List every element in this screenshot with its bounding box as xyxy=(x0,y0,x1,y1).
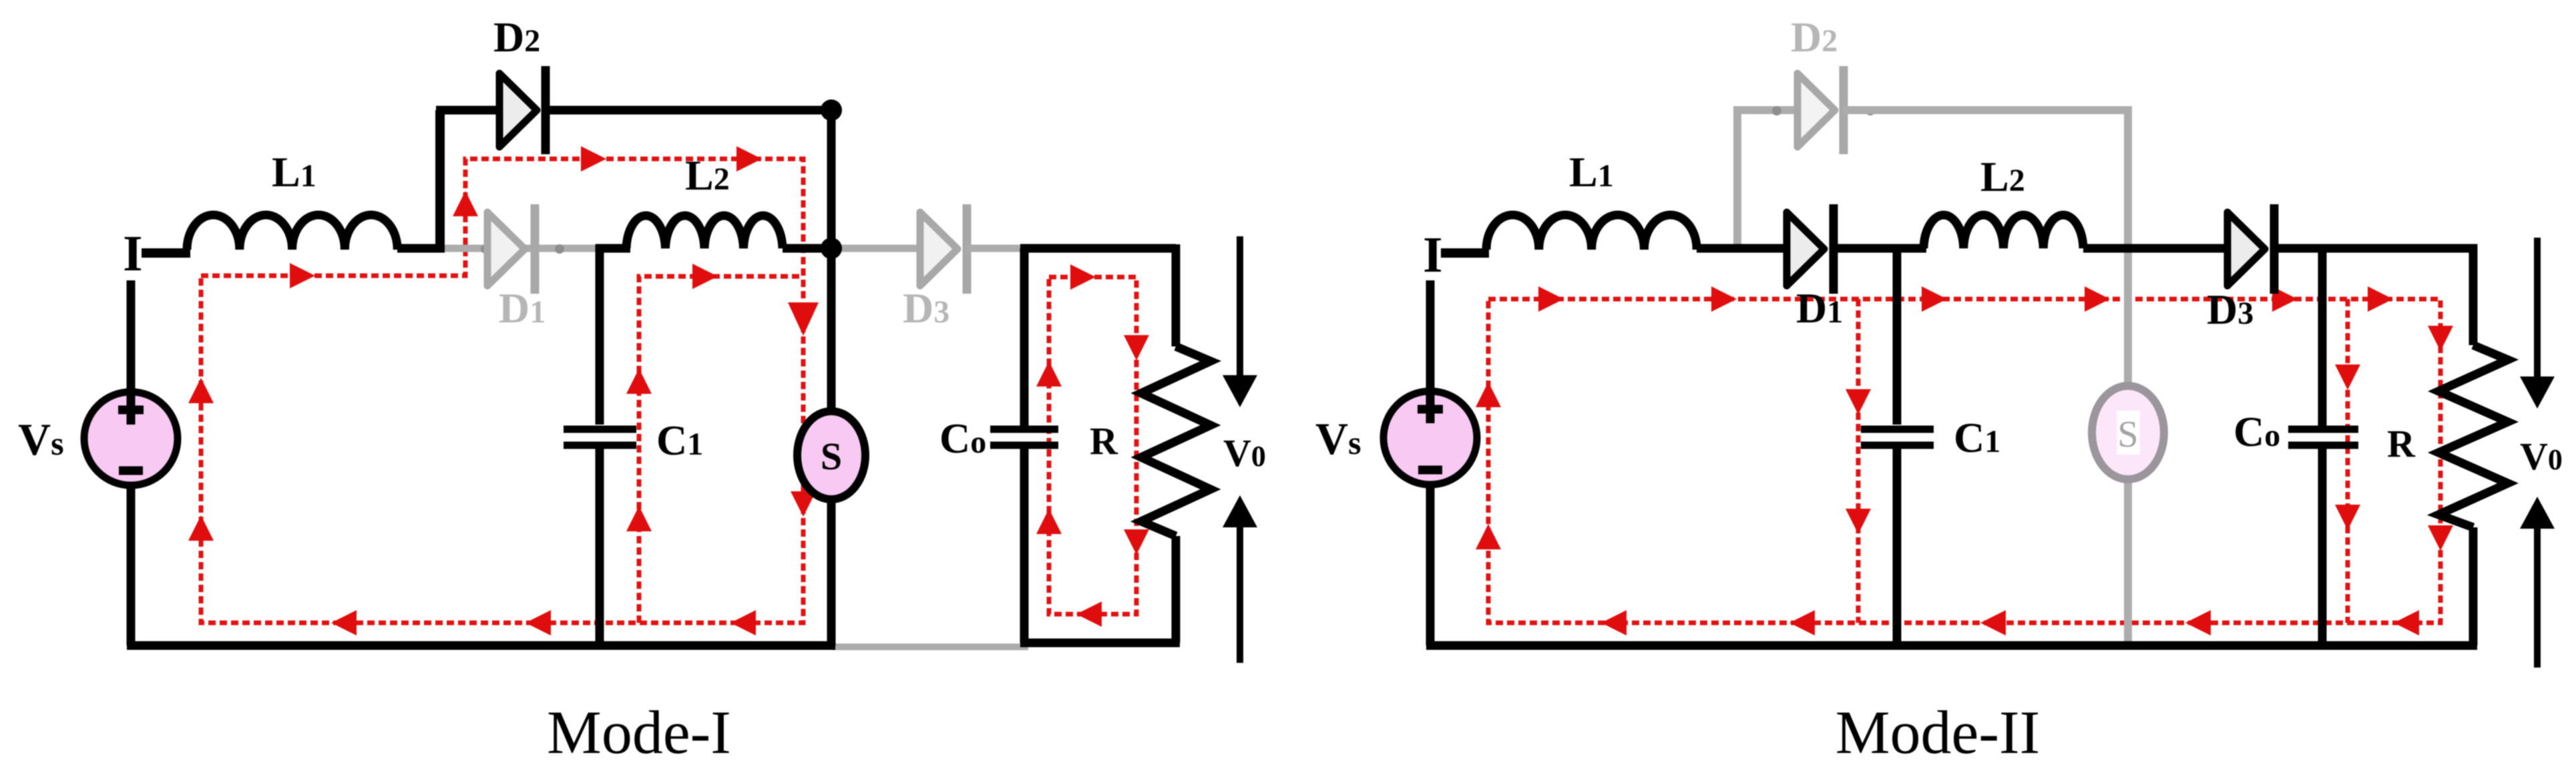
Vs minus sign xyxy=(119,467,143,475)
wire L1 to D2 riser xyxy=(397,244,445,253)
switch S (gray, off) xyxy=(2092,386,2164,479)
wire L2 to D3 xyxy=(2083,244,2230,253)
wire L2 to node B xyxy=(783,244,831,253)
svg-text:L2: L2 xyxy=(1980,153,2025,200)
inductor L1 xyxy=(1486,215,1697,250)
gray node dot left of D2 xyxy=(1772,106,1781,115)
S highlight box xyxy=(2117,411,2140,455)
svg-text:Mode-I: Mode-I xyxy=(547,698,731,766)
capacitor Co plates xyxy=(990,429,1058,445)
resistor R zigzag xyxy=(2438,345,2508,527)
inductor L1 xyxy=(187,215,397,250)
diode D3 (black, on) xyxy=(2227,204,2274,294)
svg-text:C1: C1 xyxy=(1954,414,2000,461)
red arrows loop3 xyxy=(1036,264,1149,627)
MODE-I CIRCUIT xyxy=(18,13,1266,766)
wire Vs to bottom xyxy=(127,483,136,646)
voltage source Vs circle xyxy=(84,392,178,485)
capacitor C1 branch upper wire xyxy=(1893,244,1902,425)
capacitor Co branch lower wire xyxy=(2318,447,2327,646)
capacitor C1 branch lower wire xyxy=(596,449,604,646)
diode D2 (black, on) xyxy=(499,66,546,154)
red current loop 2 (C1-L2 loop) xyxy=(639,276,803,623)
bottom wire xyxy=(1426,642,2477,650)
gray wire through D1 xyxy=(442,245,597,252)
MODE-II CIRCUIT xyxy=(1315,13,2563,766)
gray wire riser to D2 anode xyxy=(1733,106,1799,114)
svg-text:R: R xyxy=(1090,419,1118,463)
svg-text:D3: D3 xyxy=(2207,286,2253,333)
wire riser to D2 anode xyxy=(436,106,501,115)
wire I down to Vs xyxy=(1426,280,1435,423)
svg-text:L1: L1 xyxy=(1569,148,1614,196)
capacitor Co plates xyxy=(2288,429,2358,445)
output block bottom wire xyxy=(1020,639,1180,648)
voltage source Vs circle xyxy=(1383,391,1477,485)
wire I down to Vs xyxy=(127,280,136,425)
diode D1 (gray, off) xyxy=(487,204,535,294)
V0 arrow down xyxy=(1237,236,1243,375)
Vs minus sign xyxy=(1418,466,1442,475)
svg-text:D2: D2 xyxy=(1791,13,1838,61)
output block left wire lower xyxy=(1020,447,1029,643)
wire C1 branch top corner xyxy=(596,244,630,253)
wire switch branch lower xyxy=(827,499,836,646)
svg-text:Mode-II: Mode-II xyxy=(1836,698,2041,766)
svg-text:Vs: Vs xyxy=(1315,413,1361,464)
diode D2 (gray, off) xyxy=(1797,66,1844,154)
red current loop 1 (outer Vs-L1-D2-S loop) xyxy=(201,159,803,623)
svg-text:Co: Co xyxy=(2233,408,2280,455)
V0 arrow up xyxy=(1237,527,1243,663)
output block left wire upper (with Co) xyxy=(1020,248,1029,426)
wire D1 cathode to L2 xyxy=(1834,244,1926,253)
wire riser up to D2 xyxy=(435,110,445,252)
wire Vs to bottom xyxy=(1426,483,1435,646)
capacitor C1 branch upper wire xyxy=(596,244,604,425)
gray node dot right of D2 xyxy=(1866,106,1875,115)
R branch upper wire xyxy=(2469,244,2478,345)
output block top wire xyxy=(1020,244,1176,253)
switch S (on, black) xyxy=(797,411,865,499)
svg-text:R: R xyxy=(2387,422,2416,465)
capacitor C1 branch lower wire xyxy=(1893,449,1902,646)
gray switch branch vertical wire xyxy=(2124,110,2132,642)
wire stub from I to L1 xyxy=(142,248,190,258)
gray wire D3 to output block xyxy=(967,245,1028,252)
wire D3 cathode to R corner xyxy=(2274,244,2477,253)
output block right lower wire xyxy=(1172,536,1180,643)
R branch lower wire xyxy=(2469,527,2478,646)
wire node A down to node B xyxy=(827,110,836,248)
svg-text:L1: L1 xyxy=(272,148,316,196)
wire L1 to D1 xyxy=(1697,244,1789,253)
red branch through C1 xyxy=(1856,299,1861,623)
inductor L2 xyxy=(1924,215,2083,248)
gray wire bottom connector to output block xyxy=(833,644,1028,650)
wire switch branch upper xyxy=(827,248,836,411)
wire stub from I to L1 xyxy=(1441,248,1489,258)
svg-text:S: S xyxy=(821,435,842,478)
Vs plus sign xyxy=(118,397,144,423)
svg-text:Co: Co xyxy=(939,415,986,462)
inductor L2 xyxy=(626,216,783,248)
gray riser wire to D2 xyxy=(1733,110,1741,248)
resistor R zigzag xyxy=(1141,346,1211,536)
node B junction dot xyxy=(821,238,842,259)
V0 arrow up xyxy=(2534,529,2541,668)
capacitor C1 plates xyxy=(1861,429,1934,445)
gray wire node B to D3 xyxy=(831,245,923,252)
bottom wire xyxy=(127,642,835,650)
Vs plus sign xyxy=(1418,397,1443,422)
svg-text:S: S xyxy=(2117,414,2138,455)
red current loop 3 (Co-R output loop) xyxy=(1049,277,1136,614)
red current loop (single conduction loop) xyxy=(1488,299,2440,623)
red arrows mode2 xyxy=(1476,286,2453,635)
diode D3 (gray, off) xyxy=(920,204,967,294)
svg-text:D2: D2 xyxy=(493,13,540,61)
svg-text:D3: D3 xyxy=(903,284,949,332)
wire D2 cathode to node A xyxy=(546,106,831,115)
V0 arrow down xyxy=(2534,238,2541,376)
svg-text:I: I xyxy=(1423,227,1443,283)
red arrows loop1 xyxy=(188,146,819,635)
capacitor C1 plates xyxy=(564,429,636,445)
red arrows loop2 xyxy=(626,264,816,531)
gray wire D2 cathode to switch branch xyxy=(1844,106,2132,114)
svg-text:Vs: Vs xyxy=(18,414,64,465)
capacitor Co branch upper wire xyxy=(2318,244,2327,426)
gray node dot left of D1 xyxy=(481,244,490,254)
diode D1 (black, on) xyxy=(1787,204,1834,294)
svg-text:C1: C1 xyxy=(656,417,703,464)
node A junction dot xyxy=(821,99,842,121)
svg-text:V0: V0 xyxy=(2520,435,2563,478)
gray node dot right of D1 xyxy=(555,244,564,254)
svg-text:I: I xyxy=(123,226,143,282)
red branch through Co xyxy=(2346,299,2350,623)
svg-text:V0: V0 xyxy=(1223,431,1266,475)
output block right upper wire xyxy=(1172,244,1180,346)
